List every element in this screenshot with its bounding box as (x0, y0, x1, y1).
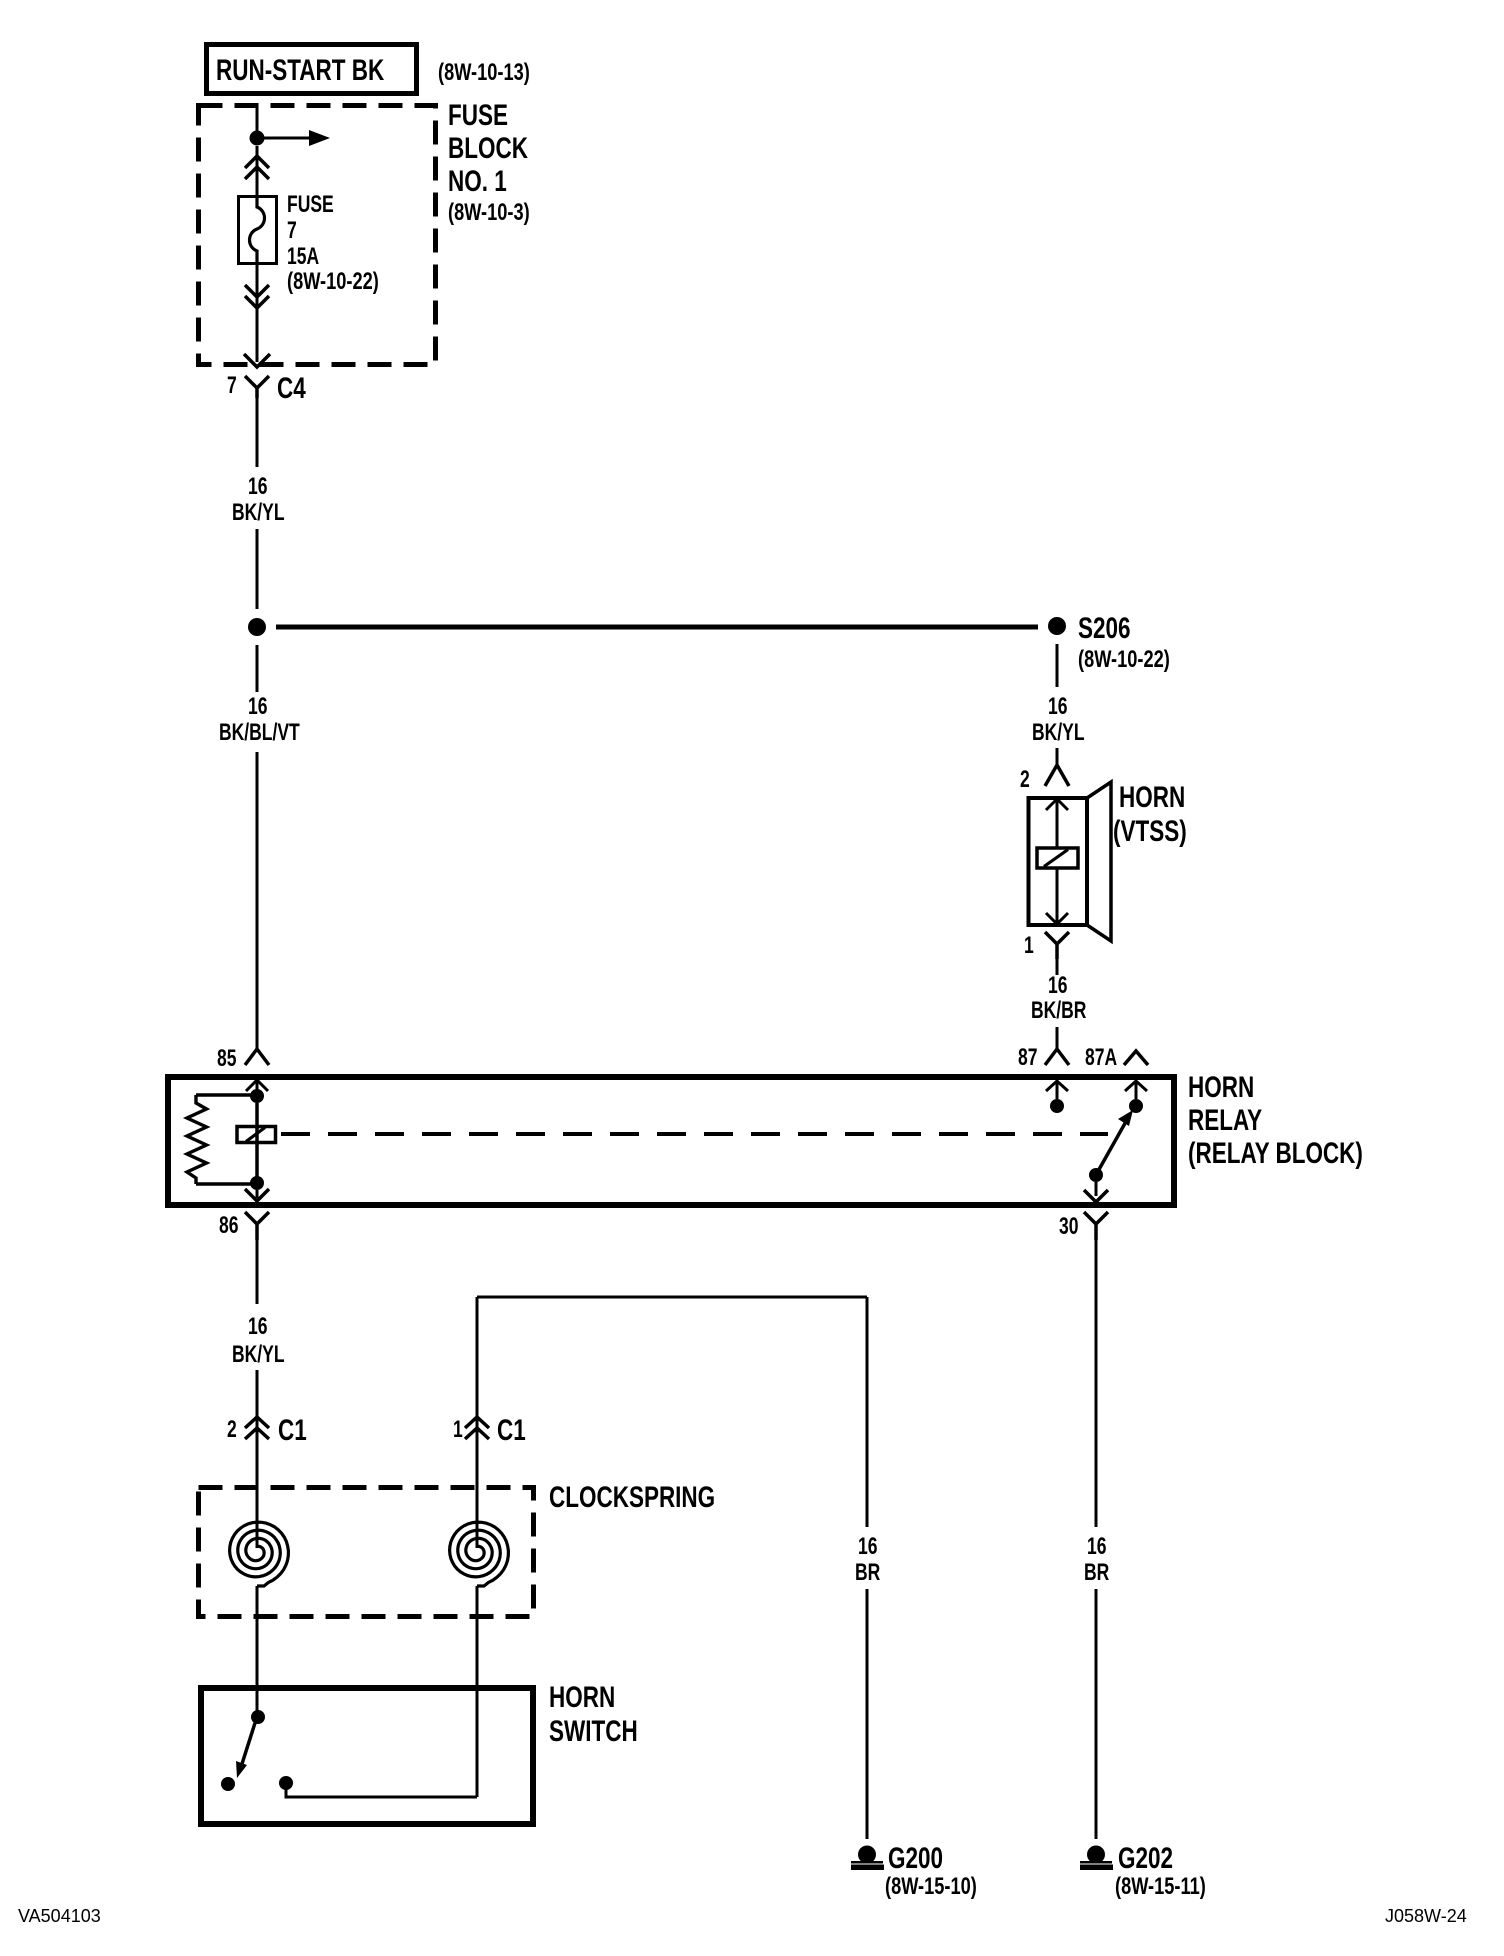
relay internal dashed line (281, 1132, 1108, 1136)
relay coil (196, 1093, 252, 1097)
branch arrow (264, 137, 309, 140)
svg-text:(8W-10-13): (8W-10-13) (438, 59, 530, 86)
svg-text:VA504103: VA504103 (18, 1906, 101, 1926)
speaker flare (1087, 782, 1111, 941)
svg-text:87: 87 (1018, 1044, 1037, 1070)
connector chevrons up (245, 156, 269, 179)
connector C1 pin2 (245, 1417, 269, 1439)
horn switch pole dot (251, 1710, 265, 1724)
svg-text:(8W-10-22): (8W-10-22) (1078, 646, 1170, 673)
wire to S206 (276, 625, 1038, 630)
wire (256, 529, 259, 609)
wire below splice left (256, 645, 259, 692)
VTSS pin2 internal (1046, 799, 1068, 810)
svg-text:(8W-10-22): (8W-10-22) (287, 268, 379, 295)
horn VTSS box (1029, 798, 1088, 925)
svg-text:15A: 15A (287, 243, 319, 269)
svg-text:RUN-START BK: RUN-START BK (216, 53, 384, 87)
fuse block no.1 dashed box (199, 106, 436, 365)
svg-text:C1: C1 (278, 1413, 307, 1447)
connector C4 female (245, 376, 269, 398)
svg-text:HORN: HORN (549, 1680, 615, 1714)
pin 30 internal arrow (1095, 1182, 1098, 1196)
svg-text:16: 16 (248, 693, 267, 719)
svg-text:87A: 87A (1085, 1044, 1117, 1070)
horn switch arm (241, 1723, 255, 1767)
svg-text:16: 16 (248, 473, 267, 499)
svg-text:7: 7 (287, 217, 297, 243)
svg-text:BK/YL: BK/YL (1032, 719, 1085, 745)
fuse 7 symbol (239, 197, 277, 264)
svg-text:BK/BR: BK/BR (1031, 997, 1086, 1023)
clockspring dashed box (199, 1488, 534, 1617)
wire to G200 (866, 1297, 869, 1527)
svg-text:C4: C4 (277, 371, 306, 405)
wire relay 30 to G202 (1095, 1240, 1098, 1527)
svg-text:HORN: HORN (1188, 1070, 1254, 1104)
relay switch arm (1097, 1118, 1128, 1173)
pin 87A internal (1125, 1081, 1147, 1091)
wire clockspring to horn switch (256, 1586, 259, 1712)
svg-text:G202: G202 (1118, 1841, 1173, 1875)
svg-text:2: 2 (227, 1416, 237, 1442)
wire below VTSS (1056, 959, 1059, 975)
svg-text:85: 85 (217, 1045, 237, 1071)
svg-text:(8W-15-11): (8W-15-11) (1115, 1873, 1206, 1900)
connector chevrons down (245, 285, 269, 308)
long wire to relay 85 (256, 752, 259, 1048)
wire horn switch loop top (477, 1296, 867, 1299)
relay box (168, 1077, 1174, 1205)
svg-text:NO. 1: NO. 1 (448, 164, 507, 198)
svg-text:CLOCKSPRING: CLOCKSPRING (549, 1480, 715, 1514)
junction dot (250, 131, 265, 146)
svg-text:BLOCK: BLOCK (448, 131, 528, 165)
clockspring coil left (230, 1522, 289, 1586)
svg-text:(RELAY BLOCK): (RELAY BLOCK) (1188, 1136, 1363, 1170)
VTSS element box (1037, 848, 1078, 868)
svg-text:HORN: HORN (1119, 780, 1185, 814)
feed box RUN-START BK (207, 45, 417, 94)
svg-text:16: 16 (1048, 972, 1067, 998)
svg-text:FUSE: FUSE (287, 191, 334, 217)
svg-text:G200: G200 (888, 1841, 943, 1875)
wire fuse down (256, 264, 259, 362)
svg-text:BK/YL: BK/YL (232, 499, 285, 525)
horn switch box (201, 1688, 533, 1824)
svg-text:BK/BL/VT: BK/BL/VT (219, 719, 300, 745)
pin 86 internal arrow (256, 1190, 259, 1198)
wire C4 down (256, 398, 259, 467)
svg-text:BK/YL: BK/YL (232, 1341, 285, 1367)
relay coil box (237, 1127, 276, 1143)
ground G202 (1087, 1846, 1105, 1864)
connector 87 male (1045, 1049, 1069, 1065)
wire dot to fuse (256, 146, 259, 196)
pin 85 internal (246, 1080, 268, 1091)
svg-text:FUSE: FUSE (448, 98, 508, 132)
connector 86 female (245, 1212, 269, 1240)
svg-text:86: 86 (219, 1212, 238, 1238)
svg-text:16: 16 (1048, 693, 1067, 719)
wire below S206 (1056, 644, 1059, 687)
svg-text:2: 2 (1020, 766, 1030, 792)
svg-text:J058W-24: J058W-24 (1385, 1906, 1467, 1926)
svg-text:30: 30 (1059, 1213, 1078, 1239)
connector pin 2 male (1045, 765, 1069, 786)
wire 86 down (256, 1240, 259, 1304)
svg-text:RELAY: RELAY (1188, 1103, 1262, 1137)
clockspring coil right (450, 1522, 509, 1586)
pin 7 edge arrow (244, 354, 270, 367)
svg-text:(VTSS): (VTSS) (1113, 814, 1187, 848)
connector pin 1 female (1045, 932, 1069, 959)
svg-text:1: 1 (453, 1416, 463, 1442)
VTSS pin1 internal (1046, 913, 1068, 924)
svg-text:1: 1 (1024, 932, 1034, 958)
svg-text:7: 7 (227, 372, 237, 398)
svg-text:16: 16 (1087, 1533, 1106, 1559)
horn switch contact dot (221, 1777, 235, 1791)
connector 85 male (245, 1049, 269, 1065)
svg-text:(8W-10-3): (8W-10-3) (448, 199, 530, 226)
svg-text:BR: BR (855, 1559, 880, 1585)
svg-text:C1: C1 (497, 1413, 526, 1447)
svg-text:16: 16 (248, 1313, 267, 1339)
svg-text:16: 16 (858, 1533, 877, 1559)
svg-text:BR: BR (1084, 1559, 1109, 1585)
svg-text:S206: S206 (1078, 611, 1131, 645)
connector C1 pin1 (465, 1417, 489, 1439)
splice dot left (248, 618, 266, 636)
svg-text:SWITCH: SWITCH (549, 1714, 638, 1748)
connector 87A mark (1124, 1051, 1148, 1065)
connector 30 female (1084, 1212, 1108, 1240)
ground G200 (858, 1846, 876, 1864)
wire from feed into fuse block (256, 105, 259, 131)
horn switch fixed contact (279, 1776, 293, 1790)
pin 87 internal (1046, 1081, 1068, 1091)
splice S206 dot (1048, 617, 1066, 635)
svg-text:(8W-15-10): (8W-15-10) (885, 1873, 977, 1900)
